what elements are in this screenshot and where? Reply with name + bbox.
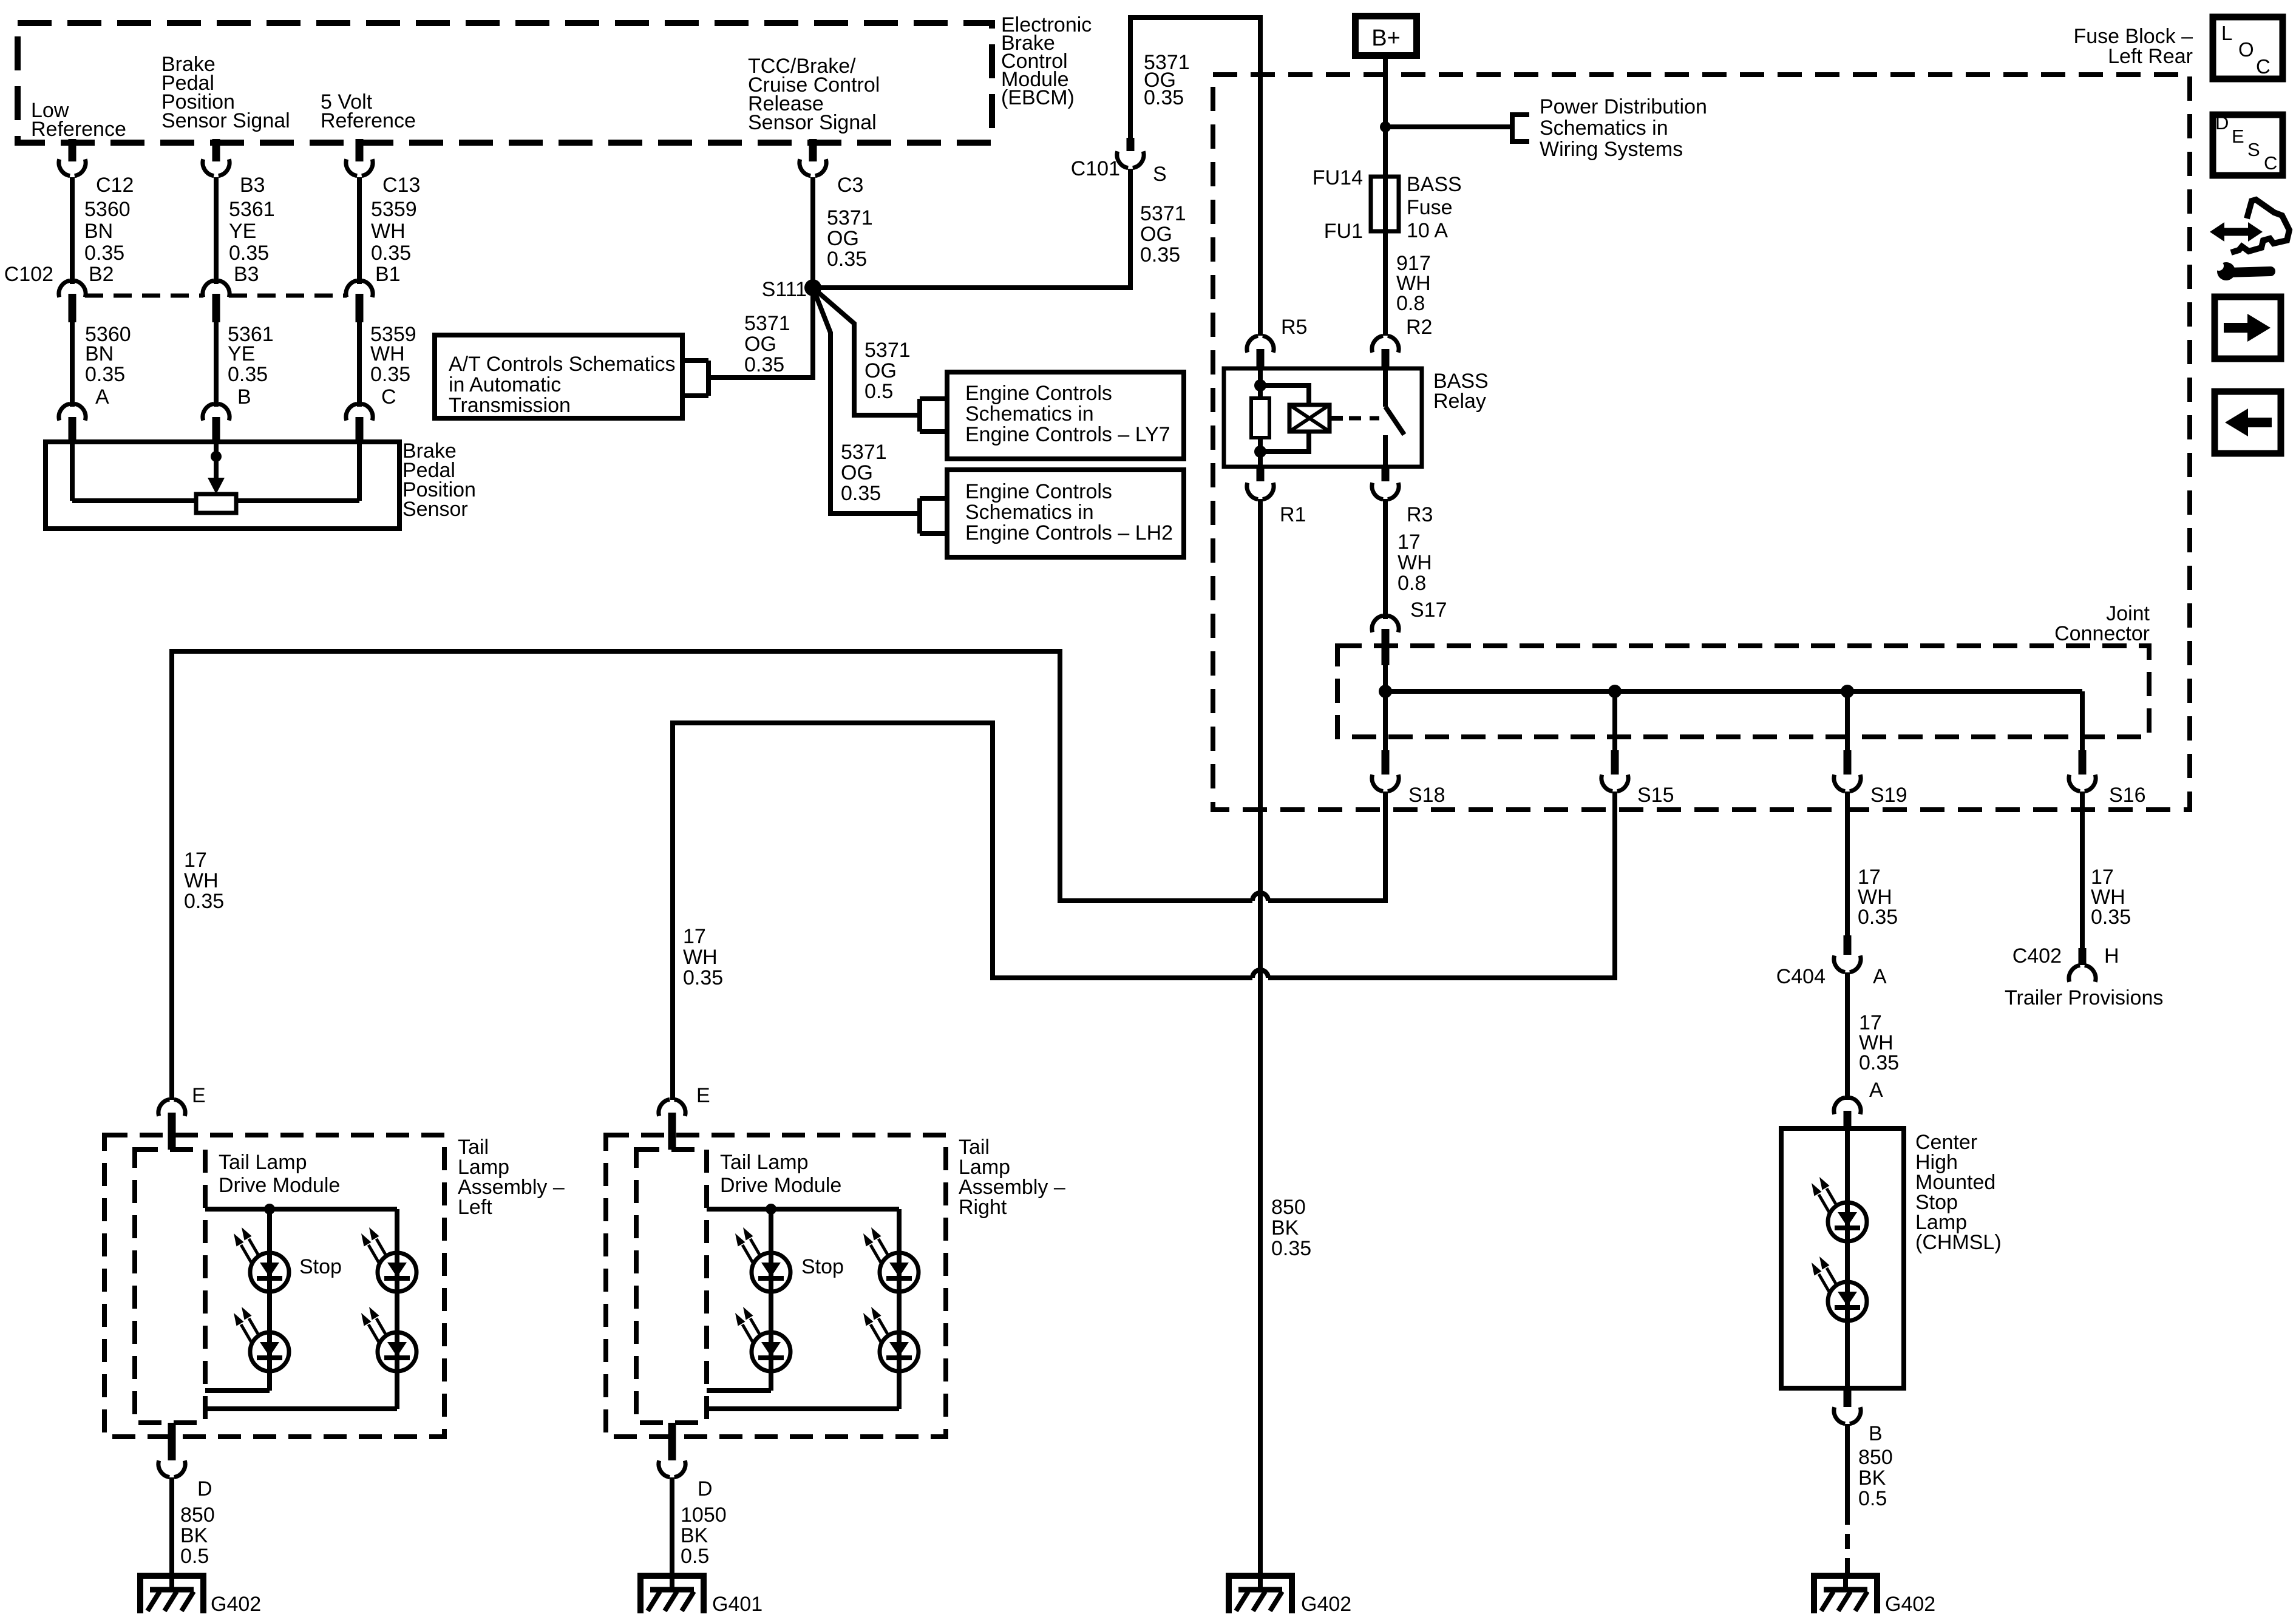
svg-text:0.35: 0.35 — [744, 353, 784, 376]
label Low Reference — [31, 99, 126, 141]
DESC icon box — [2213, 112, 2283, 175]
Fuse Block dashed box — [1213, 75, 2190, 810]
svg-text:L: L — [2221, 22, 2232, 44]
svg-text:S17: S17 — [1410, 598, 1447, 622]
svg-text:Power Distribution: Power Distribution — [1540, 95, 1707, 118]
svg-text:in Automatic: in Automatic — [449, 373, 561, 396]
svg-text:OG: OG — [864, 359, 897, 382]
svg-text:(EBCM): (EBCM) — [1001, 86, 1075, 109]
svg-text:C: C — [381, 385, 396, 408]
label C13 5359 WH 0.35 — [371, 174, 420, 265]
wire C101 up and over to R5 — [1130, 18, 1260, 336]
svg-text:C13: C13 — [382, 174, 420, 197]
wire 17 WH 0.8 — [1383, 499, 1388, 619]
svg-text:0.5: 0.5 — [1858, 1487, 1887, 1510]
label 17 WH 0.35 (S16) — [2091, 866, 2131, 929]
label 5371 OG 0.5 — [864, 339, 911, 403]
connector R2 — [1372, 336, 1399, 369]
svg-text:5361: 5361 — [229, 198, 275, 221]
label Power Distribution Schematics in Wiring Systems — [1540, 95, 1707, 161]
connector B CHMSL — [1834, 1388, 1861, 1424]
right lamp column 1 wire — [707, 1209, 771, 1391]
label 917 WH 0.8 — [1396, 252, 1431, 315]
svg-text:Tail Lamp: Tail Lamp — [219, 1151, 307, 1174]
svg-text:Stop: Stop — [299, 1255, 342, 1278]
fuse FU14/FU1 BASS Fuse 10A — [1371, 177, 1399, 231]
svg-text:WH: WH — [683, 946, 718, 969]
back arrow icon box — [2215, 392, 2281, 453]
wire S111 down to A/T — [708, 288, 813, 378]
svg-text:5371: 5371 — [744, 312, 790, 335]
label Brake Pedal Position Sensor Signal — [161, 53, 290, 132]
svg-text:0.35: 0.35 — [841, 482, 881, 505]
svg-text:Relay: Relay — [1433, 390, 1486, 413]
svg-text:17: 17 — [184, 849, 207, 872]
bracket to LY7 box — [920, 399, 947, 432]
wire 5361 YE lower — [214, 322, 219, 407]
wire 5360 BN upper — [70, 177, 75, 284]
right stop lamp 4 — [863, 1307, 919, 1371]
label Electronic Brake Control Module (EBCM) — [1001, 13, 1092, 109]
terminal B3 at EBCM — [203, 139, 229, 176]
svg-text:G402: G402 — [1885, 1593, 1935, 1616]
connector A CHMSL — [1834, 1097, 1861, 1128]
svg-text:BK: BK — [1271, 1216, 1299, 1239]
label 17 WH 0.35 (S19) — [1858, 866, 1898, 929]
left stop lamp 4 — [361, 1307, 416, 1371]
svg-text:B3: B3 — [240, 174, 265, 197]
svg-text:C404: C404 — [1776, 965, 1826, 988]
svg-text:R2: R2 — [1406, 316, 1432, 339]
CHMSL lamp 2 — [1812, 1256, 1867, 1321]
svg-text:O: O — [2238, 38, 2254, 61]
wire to power distribution — [1385, 124, 1512, 129]
svg-text:S19: S19 — [1870, 784, 1907, 807]
wire S15 to right tail lamp — [1268, 792, 1615, 978]
svg-text:5360: 5360 — [84, 198, 131, 221]
right stop lamp 3 — [863, 1227, 919, 1292]
svg-text:B: B — [237, 385, 251, 408]
svg-text:0.35: 0.35 — [1271, 1237, 1311, 1260]
terminal C3 at EBCM — [800, 139, 826, 176]
pin C entry connector — [346, 404, 373, 442]
svg-text:S111: S111 — [762, 278, 807, 301]
junction dot power branch — [1380, 121, 1391, 132]
pin labels B2 B3 B1 — [89, 263, 401, 286]
label Tail Lamp Drive Module left — [219, 1151, 340, 1197]
svg-text:B3: B3 — [234, 263, 259, 286]
svg-text:Sensor: Sensor — [402, 498, 468, 521]
svg-text:E: E — [696, 1084, 710, 1107]
connector E right — [659, 1099, 685, 1150]
svg-text:R5: R5 — [1281, 316, 1307, 339]
relay coil resistor — [1251, 398, 1269, 438]
svg-text:FU14: FU14 — [1313, 166, 1363, 189]
label 1050 BK 0.5 — [681, 1503, 727, 1568]
svg-text:A/T Controls Schematics: A/T Controls Schematics — [449, 353, 676, 376]
svg-text:OG: OG — [827, 227, 859, 250]
svg-text:Right: Right — [959, 1196, 1007, 1219]
label Tail Lamp Assembly Right — [959, 1136, 1065, 1219]
svg-text:B: B — [1869, 1422, 1883, 1445]
Tail Lamp Drive Module right dashed box — [636, 1150, 707, 1423]
svg-text:0.35: 0.35 — [370, 363, 410, 386]
relay coil feed wire — [1258, 368, 1263, 467]
right stop lamp 2 — [735, 1307, 790, 1371]
svg-text:0.35: 0.35 — [1858, 906, 1898, 929]
bracket to A/T box — [682, 361, 708, 396]
label TCC/Brake/Cruise Control Release Sensor Signal — [748, 55, 880, 134]
svg-text:G402: G402 — [1301, 1593, 1351, 1616]
svg-text:A: A — [1869, 1079, 1883, 1102]
label 17 WH 0.35 (CHMSL feed) — [1859, 1011, 1899, 1074]
Tail Lamp Assembly Right outer dashed box — [606, 1135, 946, 1437]
LOC icon box — [2213, 17, 2283, 79]
terminal C12 at EBCM — [59, 139, 86, 176]
svg-text:0.35: 0.35 — [371, 242, 411, 265]
svg-text:B1: B1 — [375, 263, 401, 286]
svg-text:S16: S16 — [2109, 784, 2146, 807]
bus junction dot S19 — [1841, 685, 1854, 698]
svg-text:0.35: 0.35 — [84, 242, 124, 265]
connector D right — [659, 1423, 685, 1477]
label Center High Mounted Stop Lamp (CHMSL) — [1915, 1131, 2002, 1254]
label BASS Relay — [1433, 370, 1489, 413]
svg-text:OG: OG — [841, 461, 873, 484]
connector C404 — [1834, 935, 1861, 972]
splice S19 drop — [1834, 691, 1861, 792]
svg-text:Schematics in: Schematics in — [965, 402, 1094, 425]
wire S16 down — [2080, 792, 2085, 948]
svg-text:0.35: 0.35 — [184, 890, 224, 913]
wire 1050 BK 0.5 — [670, 1477, 674, 1573]
label Tail Lamp Drive Module right — [720, 1151, 841, 1197]
EBCM module dashed box — [18, 23, 992, 143]
relay switch blade — [1385, 407, 1404, 435]
right stop lamp 1 — [735, 1227, 790, 1292]
Engine Controls LY7 box — [947, 372, 1184, 459]
sensor wiper arrowhead — [208, 478, 225, 494]
svg-text:WH: WH — [184, 869, 219, 892]
label 17 WH 0.35 (left lamp) — [184, 849, 224, 913]
vehicle location icon — [2210, 200, 2289, 280]
svg-text:Drive Module: Drive Module — [219, 1174, 340, 1197]
wire 5361 YE upper — [214, 177, 219, 284]
ground G401 — [637, 1573, 707, 1613]
label 5371 OG 0.35 (C3) — [827, 206, 873, 271]
svg-text:G402: G402 — [211, 1593, 261, 1616]
svg-text:0.35: 0.35 — [228, 363, 268, 386]
label 5361 YE 0.35 B — [228, 323, 274, 408]
label 850 BK 0.35 — [1271, 1196, 1311, 1260]
svg-text:0.35: 0.35 — [827, 248, 867, 271]
wire 850 BK 0.5 CHMSL — [1845, 1424, 1850, 1510]
svg-text:Sensor Signal: Sensor Signal — [161, 109, 290, 132]
wire 5371 OG from C3 — [810, 177, 815, 288]
splice S111 — [804, 279, 821, 296]
connector R1 — [1247, 467, 1274, 500]
terminal C13 at EBCM — [346, 139, 373, 176]
Joint Connector dashed box — [1337, 646, 2149, 737]
left stop lamp 2 — [234, 1307, 289, 1371]
wire hop over 850 BK lower — [1252, 970, 1268, 978]
label B3 5361 YE 0.35 — [229, 174, 275, 265]
svg-text:C: C — [2264, 152, 2277, 174]
wire 5359 WH upper — [357, 177, 362, 284]
connector C101 — [1117, 138, 1144, 168]
svg-text:R1: R1 — [1280, 503, 1306, 526]
wire hop over 850 BK — [1252, 893, 1268, 901]
connector D left — [158, 1423, 185, 1477]
relay switch contact upper — [1383, 368, 1388, 407]
svg-text:A: A — [95, 385, 109, 408]
connector S17 — [1372, 615, 1399, 665]
svg-text:BASS: BASS — [1407, 173, 1462, 196]
svg-text:B+: B+ — [1371, 25, 1401, 51]
svg-text:850: 850 — [1271, 1196, 1306, 1219]
wire S111 to LY7 — [813, 288, 920, 415]
svg-text:Left: Left — [458, 1196, 492, 1219]
svg-text:1050: 1050 — [681, 1503, 727, 1527]
svg-text:10 A: 10 A — [1407, 219, 1448, 242]
Brake Pedal Position Sensor box — [46, 442, 399, 529]
svg-text:E: E — [2232, 126, 2244, 147]
svg-text:Reference: Reference — [321, 109, 416, 132]
wire 17 WH 0.35 left run — [172, 651, 1252, 1100]
wire 5359 WH lower — [357, 322, 362, 407]
left lamp column 2 wire — [205, 1209, 397, 1409]
label Brake Pedal Position Sensor — [402, 439, 476, 521]
svg-text:Reference: Reference — [31, 118, 126, 141]
relay coil loop wires — [1260, 385, 1309, 452]
svg-text:BK: BK — [681, 1524, 708, 1547]
svg-text:Stop: Stop — [801, 1255, 844, 1278]
label A/T Controls Schematics in Automatic Transmission — [449, 353, 676, 417]
left module junction dot — [264, 1204, 275, 1215]
svg-text:0.35: 0.35 — [1144, 86, 1184, 109]
relay junction dot lower — [1254, 446, 1266, 458]
sensor resistor element — [196, 494, 236, 513]
forward arrow icon box — [2215, 297, 2281, 359]
battery feed B+ — [1356, 16, 1417, 56]
svg-text:0.35: 0.35 — [229, 242, 269, 265]
svg-text:D: D — [698, 1477, 713, 1500]
svg-text:BK: BK — [1858, 1466, 1886, 1490]
svg-text:OG: OG — [1140, 223, 1172, 246]
svg-text:WH: WH — [371, 220, 406, 243]
dashed wire to ground — [1845, 1510, 1850, 1573]
wire 17 WH 0.35 right run — [673, 723, 1252, 1100]
ground G402 CHMSL — [1811, 1573, 1880, 1613]
relay actuator stub — [1330, 416, 1343, 421]
svg-text:Schematics in: Schematics in — [965, 501, 1094, 524]
splice S15 drop — [1601, 691, 1628, 792]
svg-text:Engine Controls: Engine Controls — [965, 382, 1112, 405]
relay winding box — [1289, 405, 1330, 432]
svg-text:0.35: 0.35 — [683, 966, 723, 989]
pin B entry connector — [203, 404, 229, 442]
svg-text:D: D — [2215, 112, 2229, 134]
wire S111 to LH2 — [813, 288, 920, 514]
label 850 BK 0.5 left — [180, 1503, 215, 1568]
label 5371 OG 0.35 (A/T branch) — [744, 312, 790, 376]
svg-text:FU1: FU1 — [1324, 220, 1363, 243]
sensor resistive track — [72, 498, 359, 503]
joint connector bus wire — [1385, 689, 2082, 694]
BASS relay box — [1224, 368, 1422, 467]
label 5360 BN 0.35 A — [85, 323, 131, 408]
svg-text:C102: C102 — [4, 263, 53, 286]
Tail Lamp Assembly Left outer dashed box — [104, 1135, 444, 1437]
svg-text:Sensor Signal: Sensor Signal — [748, 111, 877, 134]
svg-text:Left Rear: Left Rear — [2108, 45, 2193, 68]
svg-text:S15: S15 — [1637, 784, 1674, 807]
svg-text:5371: 5371 — [864, 339, 911, 362]
svg-text:C101: C101 — [1071, 157, 1120, 180]
svg-text:5371: 5371 — [1140, 202, 1186, 225]
Engine Controls LH2 box — [947, 470, 1184, 557]
wire S18 to left tail lamp — [1268, 792, 1385, 901]
svg-text:Wiring Systems: Wiring Systems — [1540, 138, 1683, 161]
wire S17 to bus — [1383, 665, 1388, 691]
svg-text:S18: S18 — [1408, 784, 1445, 807]
CHMSL lamp 1 — [1812, 1177, 1867, 1241]
svg-text:C12: C12 — [96, 174, 134, 197]
wire S19 down — [1845, 792, 1850, 935]
svg-text:B2: B2 — [89, 263, 114, 286]
wire 850 BK 0.35 main — [1258, 499, 1263, 1573]
CHMSL internal wire — [1845, 1128, 1850, 1388]
label 5371 OG 0.35 (above C101) — [1144, 51, 1190, 109]
svg-text:WH: WH — [370, 342, 405, 365]
wire B+ down to R2 — [1383, 59, 1388, 336]
label BASS Fuse 10 A — [1407, 173, 1462, 242]
svg-text:Trailer Provisions: Trailer Provisions — [2005, 986, 2163, 1009]
svg-text:D: D — [197, 1477, 212, 1500]
svg-text:17: 17 — [1398, 531, 1421, 554]
left module top wire — [205, 1207, 397, 1212]
svg-text:0.5: 0.5 — [180, 1545, 209, 1568]
svg-text:E: E — [192, 1084, 206, 1107]
svg-text:0.5: 0.5 — [864, 380, 893, 403]
label C12 5360 BN 0.35 — [84, 174, 134, 265]
ground G402 center — [1226, 1573, 1295, 1613]
splice S18 drop — [1372, 691, 1399, 792]
left stop lamp 1 — [234, 1227, 289, 1292]
svg-text:Engine Controls: Engine Controls — [965, 480, 1112, 503]
label Joint Connector — [2054, 602, 2150, 645]
svg-text:0.35: 0.35 — [1859, 1051, 1899, 1074]
svg-text:H: H — [2104, 944, 2119, 968]
svg-text:YE: YE — [229, 220, 256, 243]
svg-text:Transmission: Transmission — [449, 394, 571, 417]
svg-text:5371: 5371 — [841, 441, 887, 464]
svg-text:Connector: Connector — [2054, 622, 2150, 645]
connector R5 — [1247, 336, 1274, 369]
svg-text:Tail Lamp: Tail Lamp — [720, 1151, 809, 1174]
wire S111 to C101 — [813, 169, 1130, 288]
splice S16 drop — [2069, 691, 2096, 792]
svg-text:OG: OG — [744, 333, 776, 356]
svg-text:Schematics in: Schematics in — [1540, 117, 1668, 140]
left stop lamp 3 — [361, 1227, 416, 1292]
svg-text:5371: 5371 — [827, 206, 873, 229]
label 5371 OG 0.35 (LH2 branch) — [841, 441, 887, 505]
svg-text:R3: R3 — [1407, 503, 1433, 526]
label 17 WH 0.35 (right lamp) — [683, 925, 723, 989]
CHMSL box — [1781, 1128, 1904, 1388]
Tail Lamp Drive Module left dashed box — [135, 1150, 205, 1423]
wire C404 to CHMSL — [1845, 972, 1850, 1100]
svg-text:0.8: 0.8 — [1398, 572, 1426, 595]
svg-text:BN: BN — [85, 342, 114, 365]
label Engine Controls Schematics LY7 — [965, 382, 1170, 446]
sensor internal right wire — [357, 442, 362, 501]
sensor wiper junction dot — [211, 451, 222, 462]
svg-text:A: A — [1873, 965, 1887, 988]
svg-text:0.8: 0.8 — [1396, 292, 1425, 315]
connector E left — [158, 1099, 185, 1150]
svg-text:0.35: 0.35 — [2091, 906, 2131, 929]
svg-text:WH: WH — [1398, 551, 1432, 574]
connector C402 — [2069, 948, 2096, 982]
left lamp column 1 wire — [205, 1209, 270, 1391]
label 5 Volt Reference — [321, 90, 416, 132]
wire 850 BK 0.5 left — [169, 1477, 174, 1573]
relay switch contact lower — [1383, 435, 1388, 467]
svg-text:Fuse: Fuse — [1407, 196, 1453, 219]
svg-text:(CHMSL): (CHMSL) — [1915, 1231, 2002, 1254]
svg-text:C402: C402 — [2012, 944, 2062, 968]
connector C102 in-line row — [59, 280, 373, 322]
svg-text:Engine Controls – LH2: Engine Controls – LH2 — [965, 521, 1173, 544]
right module junction dot — [766, 1204, 776, 1215]
pin A entry connector — [59, 404, 86, 442]
svg-text:5359: 5359 — [371, 198, 417, 221]
relay junction dot upper — [1254, 379, 1266, 392]
svg-text:0.5: 0.5 — [681, 1545, 709, 1568]
bracket power distribution — [1512, 112, 1529, 144]
svg-text:850: 850 — [1858, 1446, 1893, 1469]
label 17 WH 0.8 — [1398, 531, 1432, 595]
bracket to LH2 box — [920, 498, 947, 534]
svg-text:17: 17 — [683, 925, 706, 948]
svg-text:C3: C3 — [837, 174, 863, 197]
svg-text:C: C — [2256, 55, 2271, 78]
ground G402 left — [137, 1573, 206, 1613]
sensor wiper wire — [214, 442, 219, 478]
sensor internal left wire — [70, 442, 75, 501]
svg-text:BN: BN — [84, 220, 113, 243]
connector R3 — [1372, 467, 1399, 500]
right module top wire — [707, 1207, 899, 1212]
bus junction dot S15 — [1608, 685, 1622, 698]
relay actuator dashed link — [1349, 416, 1379, 421]
bus junction dot S18 — [1379, 685, 1392, 698]
svg-text:0.35: 0.35 — [85, 363, 125, 386]
svg-text:YE: YE — [228, 342, 255, 365]
label Fuse Block - Left Rear — [2073, 25, 2193, 68]
svg-text:Drive Module: Drive Module — [720, 1174, 841, 1197]
svg-text:BK: BK — [180, 1524, 208, 1547]
wire 5360 BN lower — [70, 322, 75, 407]
label 5359 WH 0.35 C — [370, 323, 416, 408]
label Engine Controls Schematics LH2 — [965, 480, 1173, 544]
svg-text:G401: G401 — [712, 1593, 763, 1616]
label 5371 OG 0.35 (below S) — [1140, 202, 1186, 266]
svg-text:S: S — [1153, 163, 1167, 186]
right lamp column 2 wire — [707, 1209, 899, 1409]
